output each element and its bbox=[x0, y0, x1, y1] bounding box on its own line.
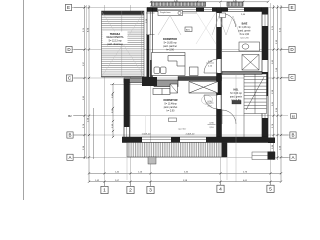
dimension lines right bbox=[274, 5, 282, 181]
svg-text:h<a 1,90: h<a 1,90 bbox=[231, 99, 241, 102]
svg-text:DORMITOR: DORMITOR bbox=[163, 37, 177, 41]
svg-text:h= 2,90: h= 2,90 bbox=[167, 111, 175, 113]
svg-text:B2: B2 bbox=[292, 115, 296, 119]
svg-text:pard. gresie: pard. gresie bbox=[230, 96, 243, 99]
LABEL-BOX-TOP bbox=[158, 11, 197, 16]
svg-text:spat. liber: spat. liber bbox=[178, 127, 187, 130]
svg-text:E: E bbox=[67, 5, 70, 10]
svg-text:h= 2,90: h= 2,90 bbox=[166, 50, 174, 52]
svg-text:A: A bbox=[68, 155, 71, 160]
svg-text:S= 4,06 mp: S= 4,06 mp bbox=[239, 27, 252, 29]
svg-text:Pergola lemn: Pergola lemn bbox=[160, 12, 171, 14]
svg-text:pard. parchet: pard. parchet bbox=[163, 45, 177, 48]
svg-text:1: 1 bbox=[103, 188, 106, 194]
svg-text:S= 16,85 mp: S= 16,85 mp bbox=[163, 43, 177, 45]
svg-text:2,45: 2,45 bbox=[174, 1, 178, 3]
svg-text:4: 4 bbox=[219, 187, 222, 193]
FURNITURE-UPPER-BED bbox=[152, 53, 199, 76]
fold line bbox=[23, 0, 25, 200]
svg-text:2,40/1,20: 2,40/1,20 bbox=[186, 134, 196, 136]
svg-text:E: E bbox=[290, 5, 293, 10]
TOP-WALL bbox=[147, 8, 268, 12]
svg-text:lum 1,90: lum 1,90 bbox=[241, 37, 250, 39]
svg-text:DORMITOR: DORMITOR bbox=[163, 98, 177, 102]
BATH-FIXTURES bbox=[239, 42, 260, 70]
STAIRS bbox=[244, 74, 267, 114]
GRID-BUBBLES bbox=[65, 4, 296, 193]
WEST-WALL-UPPER bbox=[146, 8, 155, 82]
EAST-OUTER-WALL bbox=[262, 8, 268, 143]
svg-text:S= 13,46mp: S= 13,46mp bbox=[164, 104, 177, 106]
SMALL-BOXES bbox=[185, 27, 192, 32]
svg-text:h<a 1,90: h<a 1,90 bbox=[240, 33, 250, 36]
svg-text:S= 6,06 mp: S= 6,06 mp bbox=[230, 93, 243, 95]
svg-text:NEACOPERITA: NEACOPERITA bbox=[107, 36, 124, 39]
dimension lines bottom bbox=[89, 173, 281, 181]
DOORS bbox=[204, 14, 244, 182]
svg-text:HOL: HOL bbox=[233, 89, 239, 92]
DOOR-SIZE-LABELS bbox=[142, 14, 246, 135]
EAST-INNER-WALL bbox=[217, 8, 222, 138]
svg-text:pard. dusumea: pard. dusumea bbox=[107, 43, 123, 46]
gridlines vertical bbox=[105, 3, 271, 186]
TERRACE-STRIP bbox=[101, 11, 147, 85]
svg-text:2: 2 bbox=[129, 188, 132, 194]
BOTTOM-WALL bbox=[122, 137, 268, 143]
svg-text:pard. gresie: pard. gresie bbox=[238, 30, 251, 33]
BATH-DIVIDER-WALL bbox=[222, 52, 262, 75]
svg-text:A: A bbox=[291, 155, 294, 160]
svg-text:5: 5 bbox=[269, 187, 272, 193]
FAINT-MARKS bbox=[146, 12, 241, 134]
dimension line top bbox=[150, 1, 268, 3]
ROOM-LABELS bbox=[163, 23, 251, 113]
TOP-BEAMS bbox=[152, 2, 206, 6]
WEST-WALL-LOWER bbox=[124, 79, 130, 143]
BALCONY-STRIP bbox=[127, 138, 275, 165]
DIM-TEXTS bbox=[83, 1, 282, 182]
svg-text:B: B bbox=[68, 133, 71, 138]
svg-text:S= 12,13 mp: S= 12,13 mp bbox=[108, 41, 122, 43]
svg-text:2,40: 2,40 bbox=[233, 1, 237, 3]
svg-text:B2: B2 bbox=[68, 114, 72, 118]
svg-text:pard. parchet: pard. parchet bbox=[164, 106, 178, 109]
MIDDLE-WALL bbox=[124, 77, 222, 87]
svg-text:3: 3 bbox=[149, 188, 152, 194]
FURNITURE-LOWER bbox=[153, 82, 218, 95]
svg-text:B: B bbox=[291, 133, 294, 138]
dimension lines left bbox=[85, 5, 94, 181]
gridlines horizontal bbox=[74, 8, 288, 158]
dimension ticks bbox=[83, 1, 282, 183]
svg-text:BAIE: BAIE bbox=[242, 23, 248, 26]
svg-text:1,50/1,20: 1,50/1,20 bbox=[142, 134, 152, 136]
